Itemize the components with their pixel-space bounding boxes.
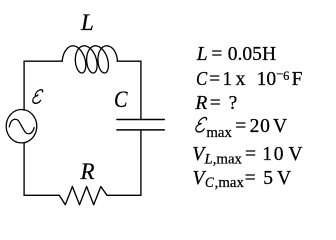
value label: V_C,max = 5 V (193, 169, 205, 189)
wire: right side down to capacitor top plate (140, 61, 142, 119)
wire: top-left corner to inductor (24, 60, 62, 62)
wire: AC source to bottom-left corner (23, 143, 25, 196)
resistor label R (81, 157, 95, 187)
value label: L = 0.05 H (197, 45, 208, 65)
resistor R zigzag (59, 187, 107, 205)
AC source circle (6, 110, 37, 143)
wire: bottom-right corner to resistor (107, 194, 141, 196)
inductor L (coil) (62, 46, 117, 73)
EMF script-E label beside source (32, 90, 43, 104)
value label: EMF_max = 20 V (195, 116, 209, 132)
wire: capacitor bottom plate to bottom-right corner (140, 131, 142, 196)
wire: inductor to top-right corner (117, 60, 141, 62)
value label: R = ? (195, 94, 207, 114)
capacitor C bottom plate (117, 129, 164, 131)
capacitor C top plate (117, 119, 164, 121)
wire: resistor to bottom-left corner (24, 194, 59, 196)
wire: top-left corner down to AC source (23, 61, 25, 110)
value label: C = 1 x 10^-6 F (196, 70, 209, 90)
capacitor label C (114, 85, 128, 115)
inductor label L (81, 8, 94, 38)
value label: V_L,max = 10 V (192, 145, 204, 165)
AC source sine wave (9, 119, 34, 134)
